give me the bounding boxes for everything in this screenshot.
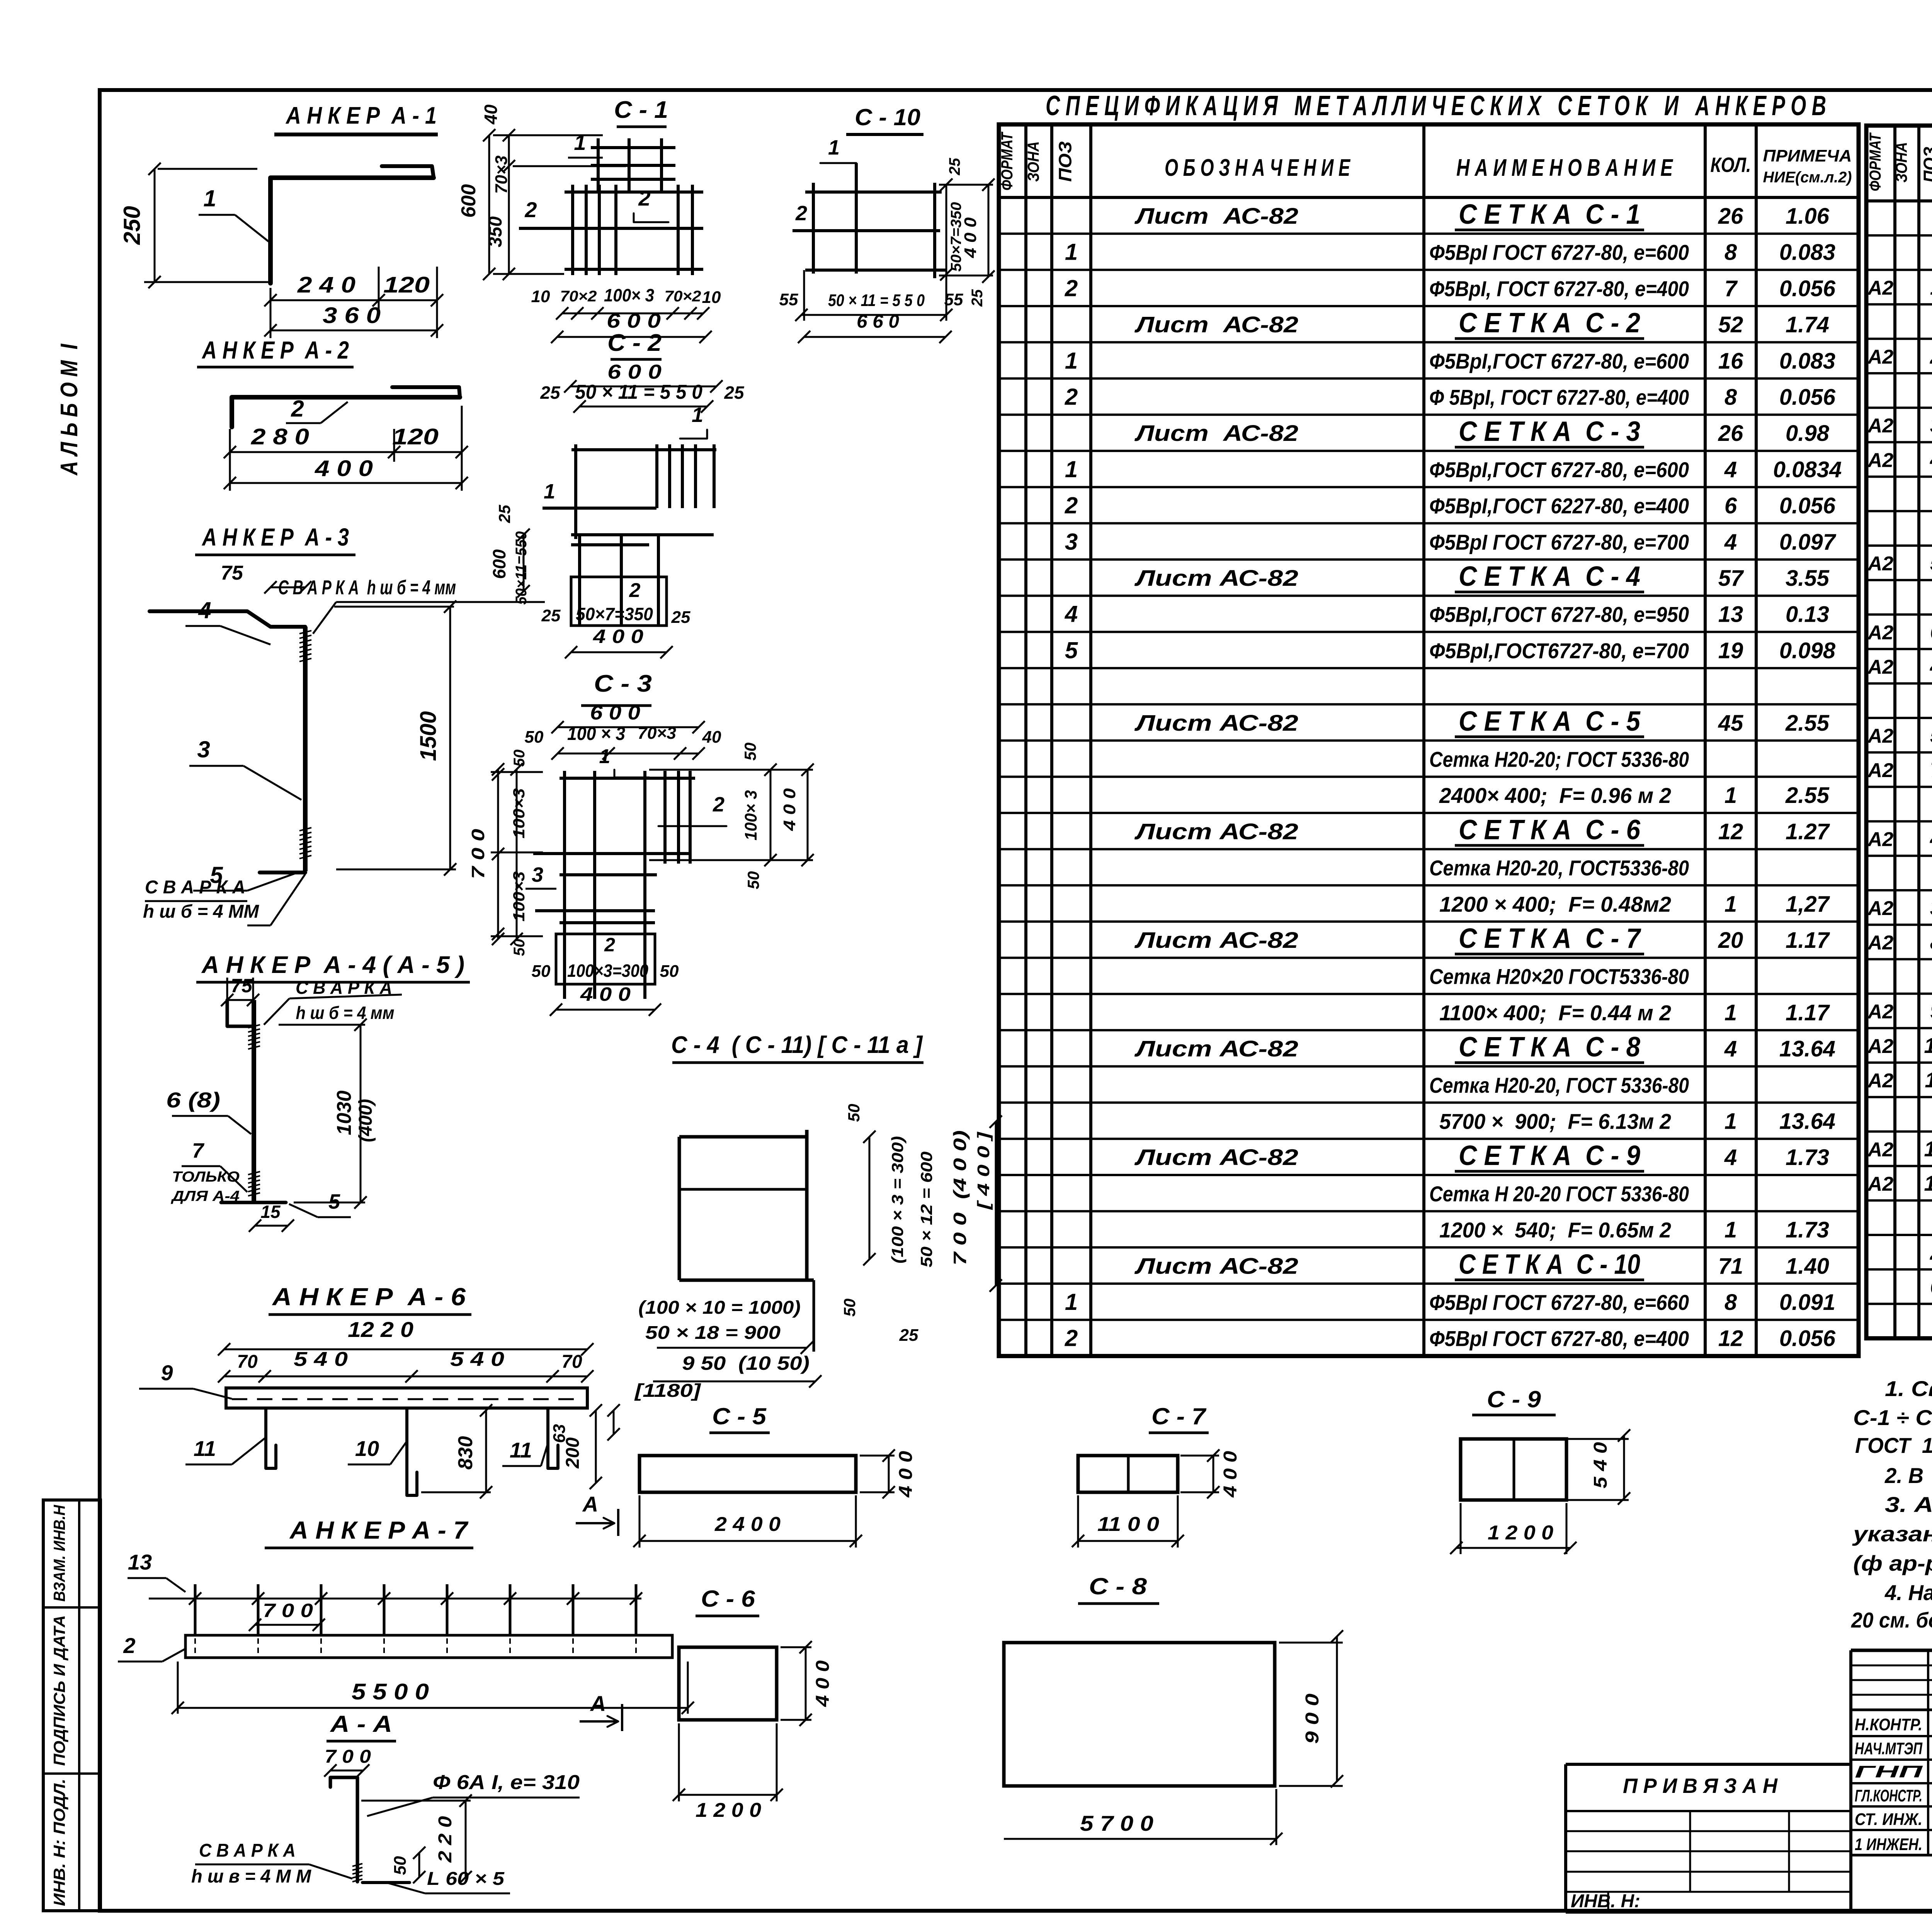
svg-text:Н А И М Е Н О В А Н И Е: Н А И М Е Н О В А Н И Е — [1456, 155, 1673, 181]
svg-text:С - 10: С - 10 — [855, 104, 920, 130]
mesh C-1 — [457, 97, 721, 343]
svg-text:2: 2 — [713, 793, 724, 816]
svg-text:С Е Т К А С - 1: С Е Т К А С - 1 — [1459, 199, 1640, 230]
svg-text:0.13: 0.13 — [1786, 602, 1829, 627]
mesh C-6 — [673, 1586, 833, 1821]
svg-text:50: 50 — [532, 962, 551, 981]
svg-text:0.097: 0.097 — [1779, 529, 1837, 554]
svg-text:ЗОНА: ЗОНА — [1024, 141, 1043, 182]
svg-text:10: 10 — [355, 1436, 379, 1461]
svg-text:50: 50 — [511, 939, 528, 956]
svg-text:С Е Т К А С - 7: С Е Т К А С - 7 — [1459, 923, 1641, 954]
svg-text:А2: А2 — [1867, 932, 1894, 954]
svg-text:25: 25 — [899, 1326, 918, 1345]
svg-text:1030: 1030 — [333, 1090, 355, 1135]
svg-text:50×11=550: 50×11=550 — [513, 531, 530, 605]
svg-text:0.083: 0.083 — [1779, 349, 1835, 374]
svg-text:6 0 0: 6 0 0 — [607, 310, 661, 332]
svg-text:2: 2 — [1065, 384, 1078, 410]
svg-text:600: 600 — [489, 549, 509, 579]
svg-text:70×3: 70×3 — [492, 155, 511, 194]
svg-text:1: 1 — [828, 136, 840, 159]
svg-text:4 0 0: 4 0 0 — [593, 626, 643, 647]
svg-text:4 0 0: 4 0 0 — [896, 1451, 916, 1498]
svg-text:ПОЗ: ПОЗ — [1055, 141, 1075, 182]
svg-text:12: 12 — [1718, 819, 1743, 844]
svg-text:25: 25 — [671, 608, 690, 627]
svg-text:С В А Р К А h ш б = 4 мм: С В А Р К А h ш б = 4 мм — [278, 577, 456, 599]
anchor A-2 — [197, 336, 468, 491]
svg-text:6: 6 — [1725, 493, 1737, 519]
svg-text:9: 9 — [1930, 999, 1932, 1023]
svg-text:1: 1 — [1065, 239, 1078, 265]
svg-text:71: 71 — [1718, 1253, 1743, 1279]
svg-text:25: 25 — [946, 158, 963, 175]
svg-text:ГЛ.КОНСТР.: ГЛ.КОНСТР. — [1855, 1786, 1922, 1805]
svg-text:ФОРМАТ: ФОРМАТ — [1866, 132, 1884, 191]
svg-text:70×3: 70×3 — [638, 724, 676, 743]
svg-text:А2: А2 — [1867, 1138, 1894, 1161]
svg-text:52: 52 — [1718, 312, 1743, 337]
svg-text:Лист АС-82: Лист АС-82 — [1134, 1253, 1298, 1279]
svg-text:Ф5ВрI ГОСТ 6727-80, e=600: Ф5ВрI ГОСТ 6727-80, e=600 — [1429, 240, 1689, 265]
svg-text:Лист АС-82: Лист АС-82 — [1134, 711, 1298, 736]
svg-text:А Н К Е Р А - 3: А Н К Е Р А - 3 — [201, 523, 349, 551]
svg-text:1100× 400; F= 0.44 м 2: 1100× 400; F= 0.44 м 2 — [1439, 1000, 1671, 1025]
svg-text:НИЕ(см.л.2): НИЕ(см.л.2) — [1763, 169, 1852, 186]
mesh C-7 — [1072, 1403, 1241, 1548]
svg-text:Лист АС-82: Лист АС-82 — [1134, 204, 1298, 229]
svg-text:2: 2 — [524, 197, 537, 222]
svg-text:1.17: 1.17 — [1786, 1000, 1830, 1025]
svg-text:830: 830 — [454, 1436, 477, 1470]
svg-text:2: 2 — [629, 579, 641, 602]
svg-text:63: 63 — [550, 1424, 569, 1443]
svg-text:С Е Т К А С - 9: С Е Т К А С - 9 — [1459, 1140, 1640, 1171]
svg-text:20: 20 — [1718, 928, 1743, 953]
svg-text:Ф5ВрI ГОСТ 6727-80, e=660: Ф5ВрI ГОСТ 6727-80, e=660 — [1429, 1290, 1689, 1315]
mesh C-2 — [489, 330, 745, 658]
svg-text:Ф5ВрI,ГОСТ6727-80, e=700: Ф5ВрI,ГОСТ6727-80, e=700 — [1429, 638, 1689, 663]
svg-text:6 0 0: 6 0 0 — [590, 702, 640, 724]
svg-text:25: 25 — [495, 505, 514, 523]
svg-text:250: 250 — [119, 206, 145, 245]
svg-text:0.091: 0.091 — [1779, 1290, 1835, 1315]
svg-text:3: 3 — [1065, 529, 1078, 554]
svg-text:ИНВ. Н: ПОДЛ.: ИНВ. Н: ПОДЛ. — [50, 1779, 68, 1906]
svg-text:1: 1 — [574, 130, 586, 155]
svg-text:3. Арматурные сетки С-5 ÷ С-: 3. Арматурные сетки С-5 ÷ С-9 вырезаются… — [1885, 1492, 1932, 1517]
svg-text:0.0834: 0.0834 — [1773, 457, 1842, 482]
svg-text:120: 120 — [392, 424, 439, 449]
svg-text:50: 50 — [511, 750, 528, 767]
svg-text:50 × 11 = 5 5 0: 50 × 11 = 5 5 0 — [828, 291, 925, 310]
svg-text:1: 1 — [203, 185, 216, 211]
svg-text:70×2: 70×2 — [665, 288, 701, 305]
svg-text:2: 2 — [1065, 493, 1078, 519]
anchor A-6 — [139, 1283, 620, 1498]
svg-text:4 0 0: 4 0 0 — [580, 983, 631, 1005]
svg-text:70: 70 — [561, 1352, 582, 1372]
svg-text:1.17: 1.17 — [1786, 928, 1830, 953]
svg-text:1: 1 — [599, 745, 611, 768]
svg-text:50 × 12 = 600: 50 × 12 = 600 — [917, 1151, 935, 1267]
svg-text:НАЧ.МТЭП: НАЧ.МТЭП — [1855, 1739, 1923, 1758]
svg-text:600: 600 — [457, 184, 480, 218]
svg-text:Ф 6А I, e= 310: Ф 6А I, e= 310 — [433, 1771, 580, 1794]
svg-text:А: А — [590, 1691, 606, 1716]
svg-text:4 0 0: 4 0 0 — [780, 788, 799, 831]
svg-text:0.056: 0.056 — [1779, 276, 1836, 301]
svg-text:4 0 0: 4 0 0 — [1220, 1451, 1241, 1498]
svg-text:0.056: 0.056 — [1779, 493, 1836, 519]
svg-text:П Р И В Я З А Н: П Р И В Я З А Н — [1623, 1774, 1778, 1798]
svg-text:С - 5: С - 5 — [712, 1403, 767, 1429]
svg-text:1.27: 1.27 — [1786, 819, 1830, 844]
svg-text:13: 13 — [1718, 602, 1743, 627]
svg-text:Сетка Н20-20, ГОСТ 5336-80: Сетка Н20-20, ГОСТ 5336-80 — [1429, 1073, 1689, 1097]
svg-text:5 4 0: 5 4 0 — [1590, 1442, 1611, 1488]
svg-text:8: 8 — [1725, 1290, 1737, 1315]
svg-text:16: 16 — [1718, 349, 1743, 374]
svg-text:1500: 1500 — [416, 711, 441, 761]
svg-text:50: 50 — [840, 1299, 859, 1317]
svg-text:50: 50 — [660, 962, 679, 981]
svg-text:50: 50 — [744, 871, 762, 889]
svg-text:5: 5 — [1930, 551, 1932, 575]
svg-text:4: 4 — [1930, 447, 1932, 471]
svg-text:6 0 0: 6 0 0 — [607, 361, 662, 383]
svg-text:А2: А2 — [1867, 897, 1894, 920]
svg-text:ПРИМЕЧА: ПРИМЕЧА — [1763, 146, 1852, 165]
svg-text:А2: А2 — [1867, 759, 1894, 782]
svg-text:50: 50 — [525, 728, 544, 747]
svg-text:1.40: 1.40 — [1786, 1253, 1829, 1279]
svg-text:2: 2 — [638, 186, 650, 210]
svg-text:2.55: 2.55 — [1785, 783, 1830, 808]
svg-text:15: 15 — [260, 1202, 281, 1222]
svg-text:(400): (400) — [355, 1099, 376, 1142]
sheet title — [1046, 90, 1826, 121]
svg-text:1.74: 1.74 — [1786, 312, 1829, 337]
svg-text:11: 11 — [194, 1436, 216, 1461]
svg-text:Сетка Н 20-20 ГОСТ 5336-80: Сетка Н 20-20 ГОСТ 5336-80 — [1429, 1182, 1689, 1206]
svg-text:9: 9 — [161, 1361, 173, 1385]
svg-text:10: 10 — [702, 288, 721, 307]
svg-text:Сетка Н20-20; ГОСТ 5336-80: Сетка Н20-20; ГОСТ 5336-80 — [1429, 747, 1689, 772]
notes — [1851, 1376, 1932, 1632]
svg-text:2 4 0 0: 2 4 0 0 — [714, 1513, 781, 1536]
svg-text:С - 8: С - 8 — [1089, 1573, 1147, 1599]
svg-text:4: 4 — [1724, 529, 1737, 554]
svg-text:3: 3 — [532, 863, 543, 886]
svg-text:3: 3 — [1930, 895, 1932, 920]
svg-text:ТОЛЬКО: ТОЛЬКО — [172, 1169, 240, 1185]
svg-text:указанными на чертеже из с: указанными на чертеже из сетки Н 20- 23 … — [1852, 1522, 1932, 1546]
svg-text:11 0 0: 11 0 0 — [1097, 1513, 1159, 1536]
anchor A-1 — [119, 102, 443, 338]
svg-text:1,27: 1,27 — [1786, 891, 1830, 917]
svg-text:Лист АС-82: Лист АС-82 — [1134, 566, 1298, 591]
svg-text:С - 1: С - 1 — [614, 97, 668, 123]
svg-text:2.55: 2.55 — [1785, 711, 1830, 736]
svg-text:8: 8 — [1725, 385, 1737, 410]
svg-text:(ф ар-ры 2 мм, вес 1 м 2 с: (ф ар-ры 2 мм, вес 1 м 2 сетки - 2.66 кг… — [1853, 1551, 1932, 1575]
svg-text:7 0 0: 7 0 0 — [325, 1747, 371, 1767]
svg-text:8: 8 — [1930, 930, 1932, 954]
svg-text:1: 1 — [1725, 1109, 1737, 1134]
svg-text:А2: А2 — [1867, 1173, 1894, 1196]
svg-text:5 5 0 0: 5 5 0 0 — [352, 1679, 429, 1704]
svg-text:25: 25 — [969, 289, 986, 307]
svg-text:0.056: 0.056 — [1779, 1326, 1836, 1351]
svg-text:2: 2 — [1930, 344, 1932, 368]
svg-text:КОЛ.: КОЛ. — [1711, 153, 1751, 177]
svg-text:55: 55 — [779, 290, 798, 309]
svg-text:57: 57 — [1718, 566, 1744, 591]
mesh C-9 — [1450, 1386, 1630, 1554]
svg-text:6: 6 — [1930, 1274, 1932, 1299]
svg-text:А Н К Е Р А - 4 ( А - 5 ): А Н К Е Р А - 4 ( А - 5 ) — [201, 952, 464, 978]
svg-text:1 ИНЖЕН.: 1 ИНЖЕН. — [1855, 1835, 1922, 1854]
svg-text:С - 2: С - 2 — [607, 330, 662, 356]
svg-text:С-1 ÷ С-4 производить электр: С-1 ÷ С-4 производить электродами типа Э… — [1853, 1405, 1932, 1430]
svg-text:8: 8 — [1725, 240, 1737, 265]
svg-text:А2: А2 — [1867, 621, 1894, 644]
svg-text:А Н К Е Р А - 6: А Н К Е Р А - 6 — [272, 1283, 466, 1311]
svg-text:0.098: 0.098 — [1779, 638, 1836, 663]
svg-text:0.056: 0.056 — [1779, 385, 1836, 410]
svg-text:1: 1 — [1065, 348, 1078, 374]
svg-text:ПОДПИСЬ И ДАТА: ПОДПИСЬ И ДАТА — [50, 1615, 68, 1766]
svg-text:75: 75 — [221, 562, 243, 584]
svg-text:1: 1 — [1725, 891, 1737, 917]
svg-text:А Н К Е Р А - 2: А Н К Е Р А - 2 — [201, 336, 349, 364]
title block — [1566, 1650, 1932, 1912]
svg-text:5 7 0 0: 5 7 0 0 — [1080, 1811, 1153, 1835]
svg-text:С Е Т К А С - 2: С Е Т К А С - 2 — [1459, 308, 1640, 338]
svg-text:А Н К Е Р А - 7: А Н К Е Р А - 7 — [289, 1516, 469, 1544]
svg-text:3: 3 — [1930, 413, 1932, 437]
svg-text:100×3=300: 100×3=300 — [567, 961, 648, 981]
svg-text:Ф5ВрI, ГОСТ 6727-80, e=400: Ф5ВрI, ГОСТ 6727-80, e=400 — [1429, 276, 1689, 301]
svg-text:Лист АС-82: Лист АС-82 — [1134, 819, 1298, 844]
svg-text:Лист АС-82: Лист АС-82 — [1134, 928, 1298, 953]
svg-text:Лист АС-82: Лист АС-82 — [1134, 1145, 1298, 1170]
svg-text:1200 × 400; F= 0.48м2: 1200 × 400; F= 0.48м2 — [1439, 892, 1671, 916]
svg-text:100×3: 100×3 — [510, 788, 528, 838]
svg-text:350: 350 — [485, 216, 506, 247]
svg-text:[1180]: [1180] — [634, 1381, 701, 1401]
mesh C-10 — [779, 104, 995, 343]
svg-text:5 4 0: 5 4 0 — [450, 1348, 504, 1371]
svg-text:2 8 0: 2 8 0 — [251, 424, 309, 449]
svg-text:2: 2 — [795, 202, 807, 225]
svg-text:26: 26 — [1718, 421, 1743, 446]
svg-text:Ф5ВрI,ГОСТ 6227-80, e=400: Ф5ВрI,ГОСТ 6227-80, e=400 — [1429, 494, 1689, 518]
svg-text:25: 25 — [724, 383, 745, 403]
svg-text:7 0 0: 7 0 0 — [263, 1600, 313, 1621]
svg-text:13.64: 13.64 — [1779, 1036, 1835, 1061]
svg-text:Лист АС-82: Лист АС-82 — [1134, 1036, 1298, 1061]
svg-text:ГОСТ 10922-75 и СН 393-78: ГОСТ 10922-75 и СН 393-78 толщина шва 4 … — [1855, 1433, 1932, 1458]
svg-text:12: 12 — [1924, 1136, 1932, 1161]
svg-text:5: 5 — [1065, 637, 1078, 663]
svg-text:ДЛЯ А-4: ДЛЯ А-4 — [171, 1188, 240, 1204]
svg-text:100 × 3: 100 × 3 — [567, 724, 625, 744]
svg-text:40: 40 — [481, 104, 501, 125]
svg-text:50 × 11 = 5 5 0: 50 × 11 = 5 5 0 — [575, 381, 702, 403]
svg-text:20 см. больше длины проема из: 20 см. больше длины проема из расчета од… — [1851, 1608, 1932, 1632]
svg-text:100×3: 100×3 — [510, 871, 528, 922]
svg-text:4: 4 — [1724, 457, 1737, 482]
svg-text:6 (8): 6 (8) — [166, 1088, 220, 1112]
svg-text:1: 1 — [1930, 275, 1932, 299]
mesh C-5 — [633, 1403, 916, 1548]
svg-text:13.64: 13.64 — [1779, 1109, 1835, 1134]
svg-text:3 6 0: 3 6 0 — [323, 303, 381, 328]
mesh C-3 — [468, 670, 814, 1016]
svg-text:А2: А2 — [1867, 725, 1894, 747]
svg-text:h ш б = 4 ММ: h ш б = 4 ММ — [143, 901, 259, 922]
svg-text:1: 1 — [1065, 1289, 1078, 1315]
anchor A-7 — [118, 1492, 694, 1731]
svg-text:50×7=350: 50×7=350 — [576, 604, 653, 624]
svg-text:4: 4 — [1065, 601, 1078, 627]
svg-text:4 0 0: 4 0 0 — [813, 1660, 833, 1707]
svg-text:ФОРМАТ: ФОРМАТ — [998, 131, 1016, 190]
svg-text:2 2 0: 2 2 0 — [435, 1816, 456, 1863]
svg-text:А2: А2 — [1867, 346, 1894, 368]
svg-text:[ 4 0 0 ]: [ 4 0 0 ] — [974, 1131, 993, 1210]
left sidebar cells — [43, 1500, 100, 1911]
svg-text:Ф5ВрI,ГОСТ 6727-80, e=600: Ф5ВрI,ГОСТ 6727-80, e=600 — [1429, 349, 1689, 373]
svg-text:А Л Ь Б О М I: А Л Ь Б О М I — [56, 344, 83, 476]
svg-text:Сетка Н20×20 ГОСТ5336-80: Сетка Н20×20 ГОСТ5336-80 — [1429, 964, 1689, 989]
svg-text:2: 2 — [1065, 1325, 1078, 1351]
svg-text:120: 120 — [383, 272, 430, 298]
svg-text:2: 2 — [291, 396, 304, 422]
svg-text:1200 × 540; F= 0.65м 2: 1200 × 540; F= 0.65м 2 — [1439, 1218, 1671, 1242]
svg-text:(100 × 3 = 300): (100 × 3 = 300) — [888, 1136, 906, 1264]
svg-text:С Е Т К А С - 3: С Е Т К А С - 3 — [1459, 416, 1640, 447]
svg-text:2400× 400; F= 0.96 м 2: 2400× 400; F= 0.96 м 2 — [1439, 783, 1671, 808]
svg-text:1: 1 — [1065, 456, 1078, 482]
svg-text:А2: А2 — [1867, 415, 1894, 437]
svg-text:7 0 0 (4 0 0): 7 0 0 (4 0 0) — [950, 1130, 970, 1265]
svg-text:1: 1 — [544, 480, 555, 503]
svg-text:1. Сварку металлических элем: 1. Сварку металлических элементов армату… — [1885, 1376, 1932, 1401]
svg-text:25: 25 — [541, 606, 561, 625]
svg-text:А2: А2 — [1867, 1001, 1894, 1023]
album label — [56, 344, 83, 476]
svg-text:А2: А2 — [1867, 828, 1894, 851]
svg-text:5 4 0: 5 4 0 — [294, 1348, 348, 1371]
svg-text:75: 75 — [231, 975, 253, 997]
spec table right — [1866, 126, 1932, 1338]
svg-text:С - 6: С - 6 — [701, 1586, 755, 1612]
svg-text:9 0 0: 9 0 0 — [1302, 1694, 1323, 1744]
svg-text:0.98: 0.98 — [1786, 421, 1830, 446]
svg-text:5700 × 900; F= 6.13м 2: 5700 × 900; F= 6.13м 2 — [1439, 1109, 1671, 1134]
mesh C-8 — [1004, 1573, 1343, 1845]
svg-text:О Б О З Н А Ч Е Н И Е: О Б О З Н А Ч Е Н И Е — [1165, 155, 1350, 181]
mesh C-4 (C-11) — [634, 1032, 1002, 1401]
svg-text:А2: А2 — [1867, 553, 1894, 575]
svg-text:7: 7 — [1930, 757, 1932, 782]
svg-text:С В А Р К А: С В А Р К А — [145, 877, 245, 898]
svg-text:1 2 0 0: 1 2 0 0 — [696, 1799, 761, 1821]
svg-text:19: 19 — [1718, 638, 1743, 663]
svg-text:1: 1 — [1725, 783, 1737, 808]
svg-text:СТ. ИНЖ.: СТ. ИНЖ. — [1855, 1810, 1922, 1829]
svg-text:С Е Т К А С - 5: С Е Т К А С - 5 — [1459, 706, 1641, 737]
svg-text:Н.КОНТР.: Н.КОНТР. — [1855, 1715, 1922, 1734]
svg-text:7: 7 — [1725, 276, 1738, 301]
svg-text:40: 40 — [702, 728, 721, 747]
svg-text:70×2: 70×2 — [560, 288, 597, 305]
svg-text:А - А: А - А — [330, 1711, 392, 1737]
svg-text:3: 3 — [197, 736, 210, 762]
svg-text:4: 4 — [1930, 654, 1932, 679]
svg-text:Ф5ВрI,ГОСТ 6727-80, e=950: Ф5ВрI,ГОСТ 6727-80, e=950 — [1429, 602, 1689, 627]
svg-text:50: 50 — [741, 743, 759, 761]
svg-text:ПОЗ.: ПОЗ. — [1920, 142, 1932, 183]
svg-text:4: 4 — [1724, 1145, 1737, 1170]
svg-text:4 0 0: 4 0 0 — [961, 217, 980, 259]
svg-text:7 0 0: 7 0 0 — [468, 828, 488, 879]
svg-text:25: 25 — [540, 383, 561, 403]
svg-text:А2: А2 — [1867, 656, 1894, 679]
svg-text:2: 2 — [123, 1633, 135, 1658]
svg-text:11: 11 — [1925, 1068, 1932, 1092]
anchor A-3 — [143, 523, 545, 925]
svg-text:6 6 0: 6 6 0 — [857, 311, 899, 332]
svg-text:6: 6 — [1930, 619, 1932, 644]
svg-text:Ф5ВрI ГОСТ 6727-80, e=700: Ф5ВрI ГОСТ 6727-80, e=700 — [1429, 530, 1689, 554]
svg-text:Ф5ВрI ГОСТ 6727-80, e=400: Ф5ВрI ГОСТ 6727-80, e=400 — [1429, 1327, 1689, 1351]
svg-text:h ш в = 4 М М: h ш в = 4 М М — [191, 1866, 311, 1887]
svg-text:4: 4 — [1930, 827, 1932, 851]
svg-text:ЗОНА: ЗОНА — [1892, 142, 1910, 183]
svg-text:А: А — [582, 1492, 598, 1516]
svg-text:С - 9: С - 9 — [1487, 1386, 1541, 1412]
svg-text:100× 3: 100× 3 — [742, 790, 760, 840]
svg-text:С Е Т К А С - 6: С Е Т К А С - 6 — [1459, 815, 1641, 845]
svg-text:13: 13 — [128, 1550, 152, 1574]
svg-text:1.06: 1.06 — [1786, 204, 1830, 229]
svg-text:1: 1 — [692, 403, 703, 427]
svg-text:С В А Р К А: С В А Р К А — [199, 1840, 296, 1861]
svg-text:1 2 0 0: 1 2 0 0 — [1488, 1522, 1553, 1544]
svg-text:12: 12 — [1718, 1326, 1743, 1351]
svg-text:1.73: 1.73 — [1786, 1218, 1829, 1243]
svg-text:9 50 (10 50): 9 50 (10 50) — [682, 1352, 810, 1374]
svg-text:2: 2 — [1930, 1240, 1932, 1264]
svg-text:С - 7: С - 7 — [1151, 1403, 1207, 1429]
svg-text:1: 1 — [1725, 1218, 1737, 1243]
svg-text:100× 3: 100× 3 — [604, 285, 654, 305]
svg-text:А2: А2 — [1867, 1070, 1894, 1092]
svg-text:h ш б = 4 мм: h ш б = 4 мм — [296, 1003, 395, 1023]
svg-text:2. В графе „ Примечание” дана: 2. В графе „ Примечание” дана масса 1 по… — [1884, 1463, 1932, 1488]
svg-text:ВЗАМ. ИНВ.Н: ВЗАМ. ИНВ.Н — [50, 1505, 68, 1602]
svg-text:С Е Т К А С - 8: С Е Т К А С - 8 — [1459, 1032, 1640, 1063]
svg-text:50 × 18 = 900: 50 × 18 = 900 — [645, 1323, 781, 1343]
svg-text:3.55: 3.55 — [1786, 566, 1830, 591]
svg-text:1: 1 — [1725, 1000, 1737, 1025]
svg-text:А2: А2 — [1867, 1035, 1894, 1058]
